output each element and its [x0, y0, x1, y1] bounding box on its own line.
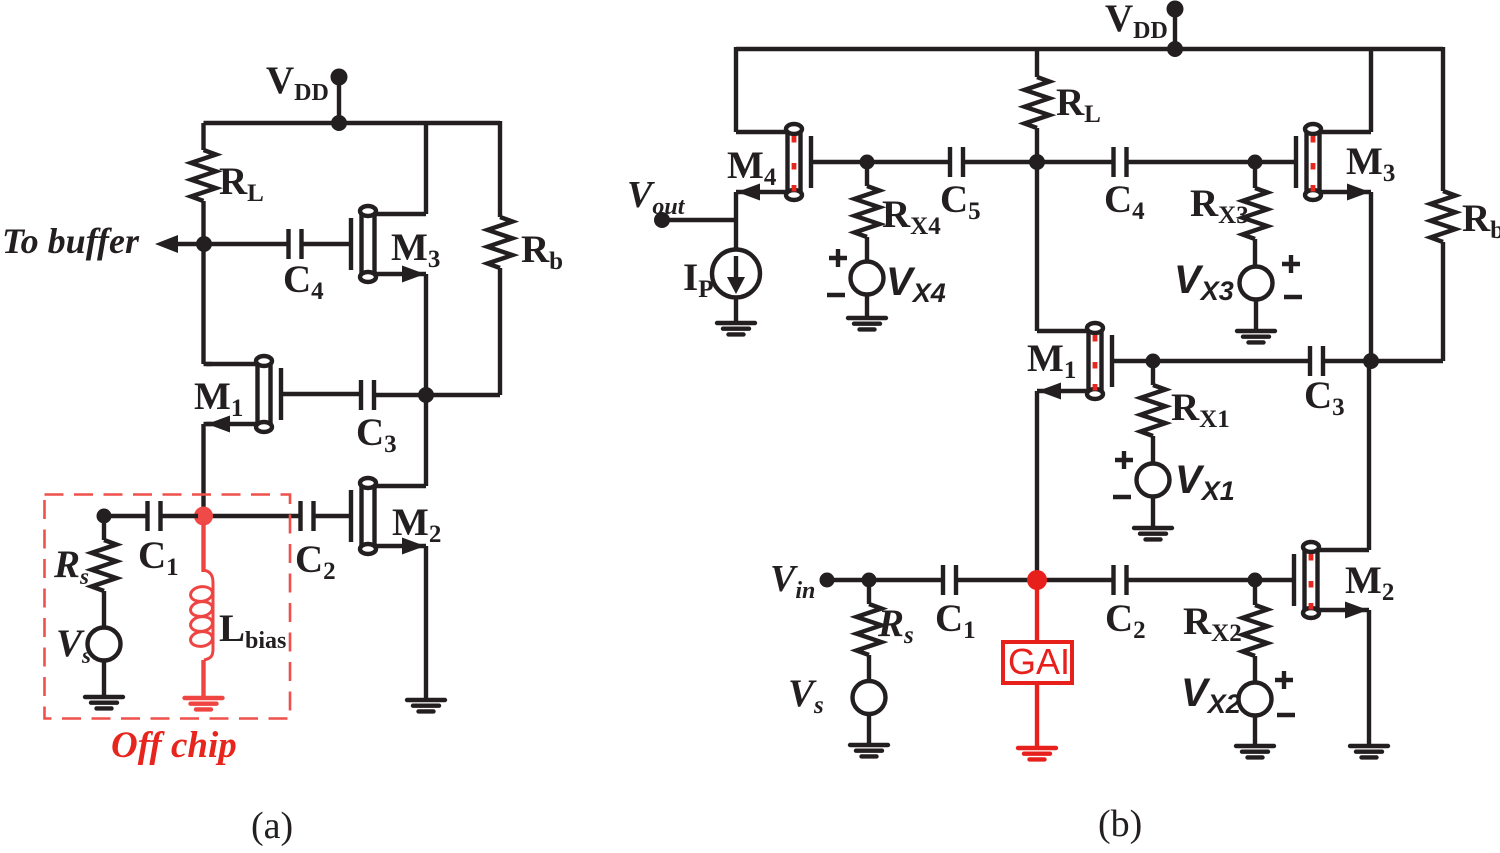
ground: Vs (b) [850, 745, 888, 756]
red channel marks M3 [1311, 136, 1316, 192]
resistor RX2 (b) [1243, 605, 1268, 656]
capacitor C1 (b) [943, 565, 956, 595]
source Vs (a) [88, 628, 121, 661]
node: RL bottom / center node (b) [1029, 154, 1045, 170]
svg-text:M1: M1 [194, 375, 243, 422]
svg-text:M2: M2 [392, 501, 441, 548]
wire: RL to center node [1035, 128, 1039, 162]
transistor M3 (a) [351, 206, 426, 283]
VX1 plus sign [1115, 451, 1133, 469]
transistor M4 (b) [736, 124, 811, 201]
wire: C2 to M2 gate node [1127, 578, 1255, 582]
current source IP arrow [734, 256, 738, 282]
wire: M1 source down to Vin node [1035, 391, 1039, 580]
ground: VX4 (b) [848, 318, 886, 329]
svg-text:C5: C5 [940, 178, 981, 225]
node: output / To buffer (a) [196, 236, 212, 252]
svg-text:RL: RL [1056, 81, 1101, 128]
wire: C3 node down to M2 drain [1367, 361, 1371, 550]
source Vs circle (b) [853, 681, 886, 714]
wire: C3 to junction [374, 393, 426, 397]
svg-text:C3: C3 [1304, 374, 1345, 421]
svg-text:RX3: RX3 [1190, 182, 1249, 229]
node: C3 / Rb junction (a) [418, 387, 434, 403]
wire: M2 source down to ground [424, 546, 428, 700]
off-chip dashed box [45, 495, 291, 719]
wire: junction to Rb bottom [426, 393, 500, 397]
wire: RX2 to VX2 [1253, 656, 1257, 683]
wire: C4 to M3 gate [301, 242, 351, 246]
wire: red node down to Lbias coil [201, 521, 205, 572]
source VX1 circle [1137, 464, 1170, 497]
ground: IP (b) [717, 323, 755, 334]
transistor M2 (b) [1294, 542, 1369, 619]
svg-text:Rb: Rb [1462, 197, 1500, 244]
node: C3 / Rb / M2 junction (b) [1363, 353, 1379, 369]
red channel marks M1 [1093, 335, 1098, 391]
ground: Lbias (red) [185, 698, 223, 709]
wire: RL bottom to output node [201, 201, 205, 244]
wire: M3 source down to C3 node [424, 274, 428, 395]
capacitor C4 (a) [289, 229, 302, 259]
wire: rail corner down to M4 drain [734, 47, 738, 132]
VDD supply rail (b) [736, 47, 1443, 51]
wire: M2 source down to ground [1367, 610, 1371, 746]
wire: node to RX4 [865, 162, 869, 186]
wire: Lbias to ground (red) [201, 660, 205, 698]
wire: junction down to M2 drain [424, 395, 428, 486]
source VX2 circle [1239, 683, 1272, 716]
VX4 minus sign [827, 293, 845, 297]
capacitor C2 (a) [301, 501, 314, 531]
wire: rail to RL top [201, 123, 205, 150]
wire: RX4 node to C5 [867, 160, 950, 164]
wire: node to M2 gate [1255, 578, 1294, 582]
wire: C1 to red node [161, 514, 198, 518]
transistor M3 (b) [1296, 124, 1371, 201]
wire: Vin terminal to node [827, 578, 869, 582]
wire: VX3 to ground [1254, 300, 1258, 332]
wire: Rb bottom to junction level [498, 268, 502, 395]
wire: output node to buffer arrow [172, 242, 204, 246]
arrowhead: to buffer [155, 235, 178, 253]
svg-text:IP: IP [683, 256, 713, 303]
wire: center node to C4 [1037, 160, 1113, 164]
wire: M4 gate to RX4 node [811, 160, 867, 164]
svg-text:RX4: RX4 [882, 193, 941, 240]
wire: left node to C1 [104, 514, 147, 518]
wire: RX4 to VX4 [865, 237, 869, 262]
wire: center node down to M1 drain [1035, 162, 1039, 331]
svg-text:RX2: RX2 [1183, 600, 1242, 647]
resistor Rs (b) [857, 604, 882, 655]
svg-text:VDD: VDD [1105, 0, 1168, 44]
ground: M2 source (a) [407, 700, 445, 711]
wire: VX4 to ground [865, 295, 869, 319]
wire: Rs to Vs (b) [867, 655, 871, 681]
wire: rail corner down to Rb (b) [1441, 47, 1445, 191]
wire: C3 node to Rb corner [1371, 359, 1443, 363]
capacitor C5 (b) [950, 147, 963, 177]
current source IP circle [712, 250, 760, 298]
node: Rs top (a) [97, 509, 112, 524]
node: Vout tap [662, 218, 736, 222]
node: M1 gate / RX1 junction [1146, 354, 1161, 369]
wire: node to RX1 [1151, 361, 1155, 385]
wire: Rs to Vs [102, 591, 106, 628]
node: M3 gate / RX3 junction [1248, 155, 1263, 170]
ground: M2 (b) [1350, 746, 1388, 757]
ground: VX1 (b) [1134, 528, 1172, 539]
capacitor C1 (a) [148, 501, 161, 531]
svg-text:VX4: VX4 [886, 260, 946, 308]
wire: RX1 to VX1 [1151, 436, 1155, 464]
svg-text:C3: C3 [356, 411, 397, 458]
wire: rail corner down to Rb [498, 121, 502, 217]
inductor Lbias [190, 570, 214, 660]
capacitor C4 (b) [1114, 147, 1127, 177]
wire: input node to C2 [209, 514, 300, 518]
resistor RX3 (b) [1243, 188, 1268, 239]
wire: node to RX3 [1253, 162, 1257, 188]
VX3 minus sign [1284, 295, 1302, 299]
svg-text:Rs: Rs [877, 602, 914, 649]
svg-text:RL: RL [219, 160, 264, 207]
svg-text:C4: C4 [283, 258, 324, 305]
node: VDD rail junction (b) [1167, 41, 1183, 57]
svg-text:RX1: RX1 [1171, 386, 1230, 433]
svg-text:M2: M2 [1345, 559, 1394, 606]
wire: M4 source down to IP [734, 192, 738, 250]
node: GAI node dot (red) (b) [1027, 570, 1047, 590]
capacitor C3 (a) [361, 380, 374, 410]
node: VDD rail junction (a) [331, 115, 347, 131]
resistor Rb (b) [1431, 191, 1456, 242]
resistor RL (a) [191, 150, 216, 201]
svg-text:(a): (a) [251, 805, 293, 847]
svg-text:VX2: VX2 [1181, 671, 1241, 719]
wire: M3 source down to C3 node [1369, 192, 1373, 361]
node: M4 gate / RX4 junction [860, 155, 875, 170]
svg-text:VX1: VX1 [1175, 458, 1235, 506]
wire: C3 to junction node [1323, 359, 1371, 363]
capacitor C2 (b) [1114, 565, 1127, 595]
ground: VX3 (b) [1237, 331, 1275, 342]
wire: rail to RL [1035, 49, 1039, 77]
svg-text:M3: M3 [1346, 140, 1395, 187]
wire: Vs to ground [102, 661, 106, 698]
source VX4 circle [851, 262, 884, 295]
resistor RL (b) [1025, 77, 1050, 128]
svg-text:Vs: Vs [56, 622, 91, 668]
svg-text:M3: M3 [391, 226, 440, 273]
svg-text:M1: M1 [1027, 337, 1076, 384]
wire: IP to ground [734, 298, 738, 324]
wire: M1 source down to input node [201, 424, 205, 516]
VDD terminal stub (b) [1173, 9, 1177, 49]
svg-text:Rb: Rb [521, 228, 563, 275]
svg-text:Rs: Rs [53, 543, 89, 589]
wire: node to Rs [102, 516, 106, 540]
node: source input node dot (red) (a) [194, 507, 213, 526]
VX4 plus sign [829, 249, 847, 267]
transistor M2 (a) [351, 478, 426, 555]
resistor RX1 (b) [1141, 385, 1166, 436]
VX3 plus sign [1282, 255, 1300, 273]
Vout terminal dot [654, 212, 670, 228]
node: Rs top (b) [862, 573, 877, 588]
svg-text:Vin: Vin [770, 558, 815, 604]
GAI box [1003, 642, 1072, 683]
resistor Rs (a) [92, 540, 117, 591]
wire: C4 to M3 gate node [1127, 160, 1255, 164]
wire: node to C3 [1153, 359, 1310, 363]
wire: M1 drain stub to left rail [204, 362, 213, 366]
svg-text:VX3: VX3 [1174, 258, 1234, 306]
node: M2 gate / RX2 junction [1248, 573, 1263, 588]
wire: node to RX2 [1253, 580, 1257, 605]
transistor M1 (a) [206, 356, 281, 433]
wire: M1 gate to C3 [281, 392, 362, 396]
wire: output node down to M1 drain [201, 244, 205, 364]
svg-text:Off chip: Off chip [111, 725, 237, 766]
wire: VX2 to ground [1253, 716, 1257, 747]
svg-text:Vs: Vs [788, 672, 824, 719]
VDD terminal stub (a) [337, 77, 341, 123]
resistor RX4 (b) [855, 186, 880, 237]
svg-text:To buffer: To buffer [2, 221, 140, 261]
wire: Rb to C3 node level [1441, 242, 1445, 361]
red channel marks M4 [792, 136, 797, 192]
VX1 minus sign [1113, 495, 1131, 499]
wire: VX1 to ground [1151, 497, 1155, 529]
svg-text:C1: C1 [935, 597, 976, 644]
wire: M1 source stub to left rail [204, 422, 213, 426]
wire: C1 to red node (b) [956, 578, 1032, 582]
wire: GAI box to red ground [1035, 683, 1039, 748]
svg-text:C2: C2 [1105, 597, 1146, 644]
VX2 plus sign [1275, 671, 1293, 689]
VDD terminal dot (b) [1167, 1, 1184, 18]
wire: red node down to GAI box [1035, 585, 1039, 642]
ground: VX2 (b) [1236, 746, 1274, 757]
capacitor C3 (b) [1310, 346, 1323, 376]
transistor M1 (b) [1037, 323, 1112, 400]
wire: rail to M3 drain [424, 123, 428, 214]
VX2 minus sign [1277, 713, 1295, 717]
svg-text:(b): (b) [1098, 803, 1142, 845]
svg-text:M4: M4 [727, 144, 777, 191]
svg-text:VDD: VDD [266, 59, 329, 106]
wire: output node to C4 [204, 242, 289, 246]
source VX3 circle [1240, 267, 1273, 300]
red channel marks M2 [1309, 554, 1314, 610]
wire: M1 gate to RX1 node [1112, 359, 1153, 363]
svg-text:Vout: Vout [627, 174, 686, 220]
wire: RX3 to VX3 [1253, 239, 1257, 267]
wire: red node to C2 (b) [1042, 578, 1113, 582]
wire: node to C1 (b) [869, 578, 943, 582]
resistor Rb (a) [488, 217, 513, 268]
ground: Vs (a) [85, 697, 123, 708]
svg-text:Lbias: Lbias [219, 607, 286, 654]
wire: node to M3 gate [1255, 160, 1296, 164]
wire: C2 to M2 gate [313, 514, 351, 518]
VDD supply rail (a) [204, 121, 501, 125]
VDD terminal dot (a) [331, 69, 348, 86]
wire: rail to M3 drain [1369, 49, 1373, 132]
Vin terminal dot [820, 573, 835, 588]
svg-text:C2: C2 [295, 538, 336, 585]
svg-text:GAI: GAI [1008, 641, 1070, 682]
wire: Vs to ground (b) [867, 714, 871, 745]
wire: C5 to center node [963, 160, 1037, 164]
ground: GAI (red) [1018, 748, 1056, 759]
svg-text:C4: C4 [1104, 178, 1145, 225]
wire: node to Rs (b) [867, 580, 871, 604]
svg-text:C1: C1 [138, 534, 179, 581]
